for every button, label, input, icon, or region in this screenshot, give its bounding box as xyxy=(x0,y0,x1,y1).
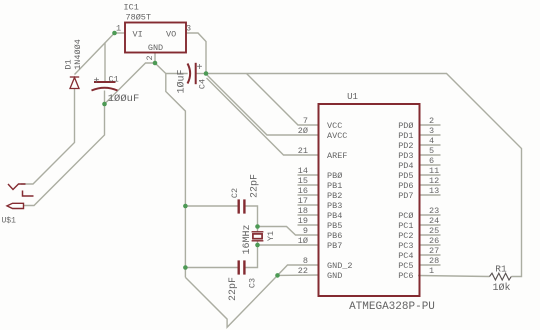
svg-text:+: + xyxy=(93,77,99,88)
pin names right side of U1 xyxy=(398,121,413,281)
wire: crystal top lead xyxy=(257,227,259,232)
svg-text:AREF: AREF xyxy=(327,151,347,161)
svg-text:1: 1 xyxy=(429,266,434,276)
svg-text:3: 3 xyxy=(186,24,191,34)
svg-text:9: 9 xyxy=(303,226,308,236)
wire: MCU pin 15 PB1 stub xyxy=(298,184,319,186)
wire: MCU pin 8 GND_2 stub and diagonal to ground junction xyxy=(278,265,319,275)
svg-text:PC2: PC2 xyxy=(398,231,413,241)
svg-text:23: 23 xyxy=(429,206,439,216)
svg-text:PCØ: PCØ xyxy=(398,211,413,221)
crystal Y1 body xyxy=(252,232,264,241)
wire: MCU pin 16 PB2 stub xyxy=(298,194,319,196)
wire: MCU pin 6 PD4 stub xyxy=(420,164,441,166)
svg-text:1N4ØØ4: 1N4ØØ4 xyxy=(73,39,83,70)
wire: 5V branch diagonal to MCU pin 7 VCC xyxy=(247,74,319,126)
svg-text:PC4: PC4 xyxy=(398,251,413,261)
node: MCU ground junction dot xyxy=(275,273,280,278)
svg-text:22: 22 xyxy=(298,266,308,276)
svg-text:D1: D1 xyxy=(63,59,73,69)
wire: 5V junction diagonal to MCU pin 20 AVCC xyxy=(206,74,319,135)
svg-text:PDØ: PDØ xyxy=(398,121,413,131)
svg-text:1ØuF: 1ØuF xyxy=(176,69,188,93)
svg-text:PD4: PD4 xyxy=(398,161,413,171)
svg-text:24: 24 xyxy=(429,216,439,226)
svg-text:PB6: PB6 xyxy=(327,231,342,241)
svg-text:PB2: PB2 xyxy=(327,191,342,201)
svg-text:19: 19 xyxy=(298,216,308,226)
svg-text:2: 2 xyxy=(145,55,155,60)
node: crystal top junction dot xyxy=(255,224,260,229)
svg-text:1Ø: 1Ø xyxy=(298,236,308,246)
svg-text:+: + xyxy=(196,63,202,74)
svg-text:4: 4 xyxy=(429,136,434,146)
wire: regulator GND to C1 bottom junction xyxy=(105,63,156,104)
svg-text:12: 12 xyxy=(429,176,439,186)
wire: ground junction to MCU pin 22 GND xyxy=(278,274,319,276)
node: 5V junction dot at C4 xyxy=(204,71,209,76)
wire: C3 left plate to ground rail xyxy=(185,267,237,269)
wire: D1 anode down and diagonal to jack tip xyxy=(21,89,75,185)
svg-text:PD7: PD7 xyxy=(398,191,413,201)
svg-text:11: 11 xyxy=(429,166,439,176)
svg-text:VCC: VCC xyxy=(327,121,342,131)
wire: MCU pin 5 PD3 stub xyxy=(420,154,441,156)
svg-text:1: 1 xyxy=(116,24,121,34)
svg-text:7: 7 xyxy=(303,116,308,126)
wire: C1 minus plate to GND junction xyxy=(104,91,106,105)
svg-text:PC5: PC5 xyxy=(398,261,413,271)
svg-text:1Øk: 1Øk xyxy=(492,282,510,294)
svg-text:IC1: IC1 xyxy=(124,3,139,13)
svg-text:PD2: PD2 xyxy=(398,141,413,151)
wire: regulator GND pin 2 stub xyxy=(154,53,156,64)
resistor R1 zigzag xyxy=(490,273,512,280)
wire: MCU pin 19 PB5 stub xyxy=(298,224,319,226)
wire: 5V rail across top, down right side to R1 xyxy=(206,74,522,277)
svg-text:16: 16 xyxy=(298,186,308,196)
wire: MCU pin 18 PB4 stub xyxy=(298,214,319,216)
svg-text:PC3: PC3 xyxy=(398,241,413,251)
svg-text:PD5: PD5 xyxy=(398,171,413,181)
svg-text:Y1: Y1 xyxy=(266,231,276,241)
wire: regulator VO pin 3 down to 5V junction xyxy=(186,33,206,74)
svg-text:PB3: PB3 xyxy=(327,201,342,211)
wire: MCU pin 28 PC5 stub xyxy=(420,264,441,266)
capacitor C3 22pF plates xyxy=(239,260,245,274)
wire: MCU pin 27 PC4 stub xyxy=(420,254,441,256)
wire: MCU pin 17 PB3 stub xyxy=(298,204,319,206)
svg-text:VO: VO xyxy=(166,30,176,40)
power jack U$1 switch contact xyxy=(23,191,34,197)
svg-text:28: 28 xyxy=(429,256,439,266)
svg-text:PC6: PC6 xyxy=(398,271,413,281)
svg-text:2Ø: 2Ø xyxy=(298,126,308,136)
svg-text:PB4: PB4 xyxy=(327,211,342,221)
svg-text:13: 13 xyxy=(429,186,439,196)
svg-text:3: 3 xyxy=(429,126,434,136)
svg-text:14: 14 xyxy=(298,166,308,176)
node: regulator GND junction dot xyxy=(153,61,158,66)
wire: jack sleeve diagonal up to C1 minus lead xyxy=(24,104,105,206)
wire: C2 right plate to crystal top node xyxy=(245,206,257,227)
node: ground rail / C2 junction dot xyxy=(183,204,188,209)
svg-text:VI: VI xyxy=(133,30,143,40)
wire: VI net diagonal to D1 cathode xyxy=(75,33,115,75)
svg-text:8: 8 xyxy=(303,256,308,266)
wire: MCU pin 3 PD1 stub xyxy=(420,134,441,136)
wire: regulator GND down-right to vertical ground rail xyxy=(155,63,185,277)
svg-text:2: 2 xyxy=(429,116,434,126)
wire: C4 plus plate to 5V junction xyxy=(197,73,207,75)
svg-text:C4: C4 xyxy=(198,79,208,89)
wire: crystal bottom node to MCU pin 10 PB7 xyxy=(258,244,319,246)
svg-text:PB1: PB1 xyxy=(327,181,342,191)
wire: ground rail to C2 left plate xyxy=(185,205,237,207)
wire: MCU pin 14 PB0 stub xyxy=(298,174,319,176)
wire: crystal bottom node down to C3 right plate xyxy=(245,245,257,268)
svg-text:C2: C2 xyxy=(230,188,240,198)
svg-text:PD1: PD1 xyxy=(398,131,413,141)
svg-text:22pF: 22pF xyxy=(228,277,239,301)
node: ground rail / C3 junction dot xyxy=(183,265,188,270)
svg-text:ATMEGA328P-PU: ATMEGA328P-PU xyxy=(349,301,435,313)
pin names left side of U1 xyxy=(327,121,353,281)
node: C1 bottom ground junction dot xyxy=(102,102,107,107)
wire: MCU pin 11 PD5 stub xyxy=(420,174,441,176)
wire: MCU pin 13 PD7 stub xyxy=(420,194,441,196)
svg-text:5: 5 xyxy=(429,146,434,156)
svg-text:15: 15 xyxy=(298,176,308,186)
pin numbers right side of U1 xyxy=(429,116,439,276)
node: crystal bottom junction dot xyxy=(255,243,260,248)
svg-text:GND: GND xyxy=(327,271,342,281)
svg-text:C3: C3 xyxy=(248,278,258,288)
wire: 5V diagonal to MCU pin 21 AREF xyxy=(207,78,319,155)
MCU U1 ATMEGA328P body xyxy=(319,104,420,296)
wire: crystal top node to MCU pin 9 PB6 xyxy=(258,227,319,236)
svg-text:PB7: PB7 xyxy=(327,241,342,251)
wire: MCU pin 12 PD6 stub xyxy=(420,184,441,186)
svg-text:PD3: PD3 xyxy=(398,151,413,161)
power jack U$1 sleeve plug xyxy=(7,203,24,208)
wire: MCU pin 1 PC6 to R1 left lead xyxy=(418,276,490,277)
diode D1 1N4004 xyxy=(70,77,79,89)
wire: MCU pin 2 PD0 stub xyxy=(420,124,441,126)
svg-text:R1: R1 xyxy=(495,264,507,275)
wire: ground rail to C4 minus plate xyxy=(166,73,188,75)
svg-text:PB5: PB5 xyxy=(327,221,342,231)
svg-text:6: 6 xyxy=(429,156,434,166)
svg-text:GND_2: GND_2 xyxy=(327,261,353,271)
wire: MCU pin 23 PC0 stub xyxy=(420,214,441,216)
svg-text:18: 18 xyxy=(298,206,308,216)
svg-text:PD6: PD6 xyxy=(398,181,413,191)
capacitor C1 100uF plates xyxy=(92,82,118,91)
svg-text:22pF: 22pF xyxy=(250,174,261,198)
svg-text:1ØØuF: 1ØØuF xyxy=(108,93,140,105)
svg-text:AVCC: AVCC xyxy=(327,131,347,141)
wire: MCU pin 24 PC1 stub xyxy=(420,224,441,226)
wire: MCU pin 26 PC3 stub xyxy=(420,244,441,246)
wire: VI net dot to regulator pin 1 xyxy=(115,32,126,34)
wire: MCU pin 25 PC2 stub xyxy=(420,234,441,236)
capacitor C2 22pF plates xyxy=(239,199,245,213)
wire: crystal bottom lead to node xyxy=(257,241,259,245)
svg-text:27: 27 xyxy=(429,246,439,256)
power jack U$1 tip contact xyxy=(8,184,26,190)
svg-text:21: 21 xyxy=(298,146,308,156)
svg-text:78Ø5T: 78Ø5T xyxy=(126,13,152,23)
svg-text:16MHz: 16MHz xyxy=(242,224,253,254)
svg-text:25: 25 xyxy=(429,226,439,236)
regulator IC1 7805 body xyxy=(125,23,186,53)
svg-text:C1: C1 xyxy=(109,75,119,85)
svg-text:GND: GND xyxy=(148,43,163,53)
svg-text:26: 26 xyxy=(429,236,439,246)
wire: MCU pin 4 PD2 stub xyxy=(420,144,441,146)
pin numbers left side of U1 xyxy=(298,116,308,276)
svg-text:PBØ: PBØ xyxy=(327,171,342,181)
svg-text:U1: U1 xyxy=(347,92,358,102)
svg-text:U$1: U$1 xyxy=(2,217,17,226)
wire: ground rail V-dip to MCU ground junction xyxy=(185,275,277,327)
svg-text:PC1: PC1 xyxy=(398,221,413,231)
capacitor C4 10uF plates xyxy=(188,63,196,84)
wire: tap from VI diagonal down to C1 plus plate xyxy=(104,43,106,82)
svg-text:17: 17 xyxy=(298,196,308,206)
node: VI junction dot xyxy=(112,31,117,36)
